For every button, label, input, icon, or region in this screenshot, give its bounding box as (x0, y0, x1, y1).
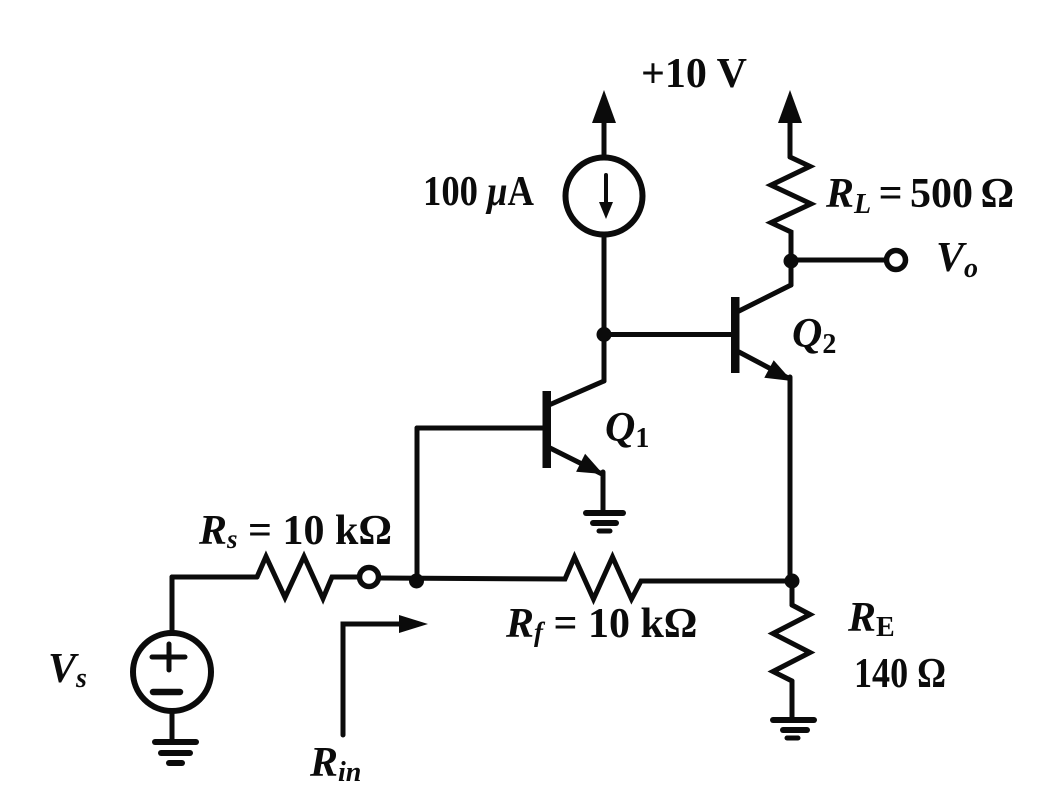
svg-text:+10 V: +10 V (641, 51, 747, 97)
svg-text:RL = 500 Ω: RL = 500 Ω (825, 171, 1014, 220)
svg-text:100 μA: 100 μA (423, 169, 535, 215)
svg-text:Rf = 10 kΩ: Rf = 10 kΩ (505, 601, 697, 647)
svg-text:140 Ω: 140 Ω (854, 651, 946, 697)
